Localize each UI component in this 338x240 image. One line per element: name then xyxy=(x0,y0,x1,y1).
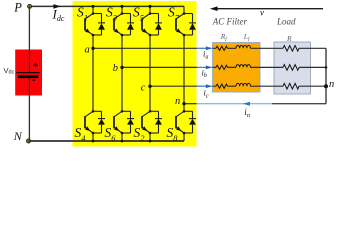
node N xyxy=(27,139,31,143)
wire leg3 vertical xyxy=(149,6,151,141)
wire S3 cell bottom bar xyxy=(122,34,131,36)
diode of S3 xyxy=(127,14,134,36)
neutral wire light blue xyxy=(197,103,273,105)
IGBT S5 emitter arrow xyxy=(142,29,147,34)
IGBT S2 emitter arrow xyxy=(142,126,147,131)
load resistor R phase a xyxy=(283,46,299,52)
node P xyxy=(28,4,32,8)
svg-text:Idc: Idc xyxy=(52,6,65,23)
wire S1 cell bottom bar xyxy=(93,34,102,36)
junction dots bottom rail xyxy=(92,140,95,143)
diode of S7 xyxy=(189,14,196,36)
diode of S1 xyxy=(98,14,105,36)
wire load right bus xyxy=(325,48,327,103)
diode of S8 xyxy=(189,111,196,133)
diode of S6 xyxy=(127,111,134,133)
wire S8 cell bottom bar xyxy=(184,132,193,134)
battery plus sign xyxy=(33,63,37,67)
junction dots top rail xyxy=(92,5,95,8)
svg-text:AC Filter: AC Filter xyxy=(212,16,248,26)
diode of S5 xyxy=(155,14,162,36)
filter resistor Rf phase b xyxy=(216,65,228,69)
battery minus sign xyxy=(32,79,35,81)
svg-text:n: n xyxy=(175,96,180,107)
filter phase a wire xyxy=(213,47,327,49)
svg-text:n: n xyxy=(329,79,334,90)
filter resistor Rf phase c xyxy=(216,84,228,88)
load resistor R phase c xyxy=(283,83,299,89)
IGBT S7 emitter arrow xyxy=(176,29,181,34)
svg-text:v: v xyxy=(260,7,264,17)
wire phase b xyxy=(122,66,197,68)
current arrow i_b xyxy=(206,66,212,70)
svg-text:b: b xyxy=(113,63,118,74)
IGBT S3 emitter arrow xyxy=(114,29,119,34)
svg-text:R: R xyxy=(286,34,292,43)
filter inductor Lf phase b xyxy=(236,65,250,68)
node a xyxy=(91,47,94,50)
wire S4 cell top bar xyxy=(93,110,102,112)
filter phase c wire xyxy=(213,85,327,87)
wire S6 cell bottom bar xyxy=(122,132,131,134)
filter inductor Lf phase c xyxy=(236,83,250,86)
wire phase a xyxy=(93,47,197,49)
wire leg4 vertical xyxy=(183,6,185,141)
voltage arrow v xyxy=(214,8,324,10)
IGBT S3 xyxy=(114,14,122,36)
blue line i_b xyxy=(197,66,212,68)
wire S6 cell top bar xyxy=(122,110,131,112)
IGBT S4 xyxy=(85,111,93,133)
wire S5 cell bottom bar xyxy=(150,34,159,36)
current arrow i_c xyxy=(206,84,212,88)
svg-text:in: in xyxy=(244,107,250,119)
IGBT S7 xyxy=(176,14,184,36)
current arrow i_n xyxy=(243,102,250,106)
neutral wire gray to load xyxy=(272,103,326,105)
diode of S2 xyxy=(155,111,162,133)
IGBT S5 xyxy=(142,14,150,36)
svg-text:Lf: Lf xyxy=(243,32,251,43)
IGBT S2 xyxy=(142,111,150,133)
wire S7 cell bottom bar xyxy=(184,34,193,36)
IGBT S1 emitter arrow xyxy=(85,29,90,34)
wire neutral inside inverter xyxy=(184,103,197,105)
IGBT S6 emitter arrow xyxy=(114,126,119,131)
IGBT S8 xyxy=(176,111,184,133)
wire phase c xyxy=(150,85,197,87)
current arrow I_dc xyxy=(53,4,60,9)
filter resistor Rf phase a xyxy=(216,46,228,50)
IGBT S4 emitter arrow xyxy=(85,126,90,131)
diode of S4 xyxy=(98,111,105,133)
wire top DC rail P to leg4 xyxy=(29,5,184,7)
svg-text:P: P xyxy=(13,1,22,15)
inverter yellow background xyxy=(73,1,197,147)
wire S1 cell top bar xyxy=(93,13,102,15)
AC filter box xyxy=(213,43,261,93)
wire S3 cell top bar xyxy=(122,13,131,15)
svg-text:N: N xyxy=(13,129,23,143)
node n inverter xyxy=(182,102,185,105)
wire S5 cell top bar xyxy=(150,13,159,15)
wire leg1 vertical xyxy=(92,6,94,141)
DC source Vdc red box xyxy=(15,50,42,96)
svg-text:c: c xyxy=(141,82,146,93)
IGBT S1 xyxy=(85,14,93,36)
wire S8 cell top bar xyxy=(184,110,193,112)
junction dot bus b xyxy=(325,66,328,69)
svg-text:ic: ic xyxy=(204,88,209,100)
node b xyxy=(120,66,123,69)
filter phase b wire xyxy=(213,66,327,68)
svg-text:a: a xyxy=(85,45,90,56)
battery Vdc negative plate xyxy=(18,75,38,78)
wire S2 cell top bar xyxy=(150,110,159,112)
current arrow i_a xyxy=(206,46,212,50)
wire S2 cell bottom bar xyxy=(150,132,159,134)
wire S4 cell bottom bar xyxy=(93,132,102,134)
wire battery to N xyxy=(28,77,30,141)
svg-text:ia: ia xyxy=(203,49,208,61)
wire bottom DC rail N to leg4 xyxy=(29,140,185,142)
IGBT S8 emitter arrow xyxy=(176,126,181,131)
wire DC link left vertical (P to battery) xyxy=(28,6,30,72)
blue line i_c xyxy=(197,85,212,87)
IGBT S6 xyxy=(114,111,122,133)
filter inductor Lf phase a xyxy=(236,46,250,49)
svg-text:Vdc: Vdc xyxy=(4,66,15,76)
svg-text:Load: Load xyxy=(276,17,296,27)
wire leg2 vertical xyxy=(121,6,123,141)
battery Vdc positive plate xyxy=(16,72,39,74)
load resistor R phase b xyxy=(283,65,299,71)
svg-text:Rf: Rf xyxy=(220,32,229,43)
node n load xyxy=(324,84,328,88)
blue line i_a xyxy=(197,47,212,49)
wire S7 cell top bar xyxy=(184,13,193,15)
node c xyxy=(148,85,151,88)
load box xyxy=(274,42,311,94)
